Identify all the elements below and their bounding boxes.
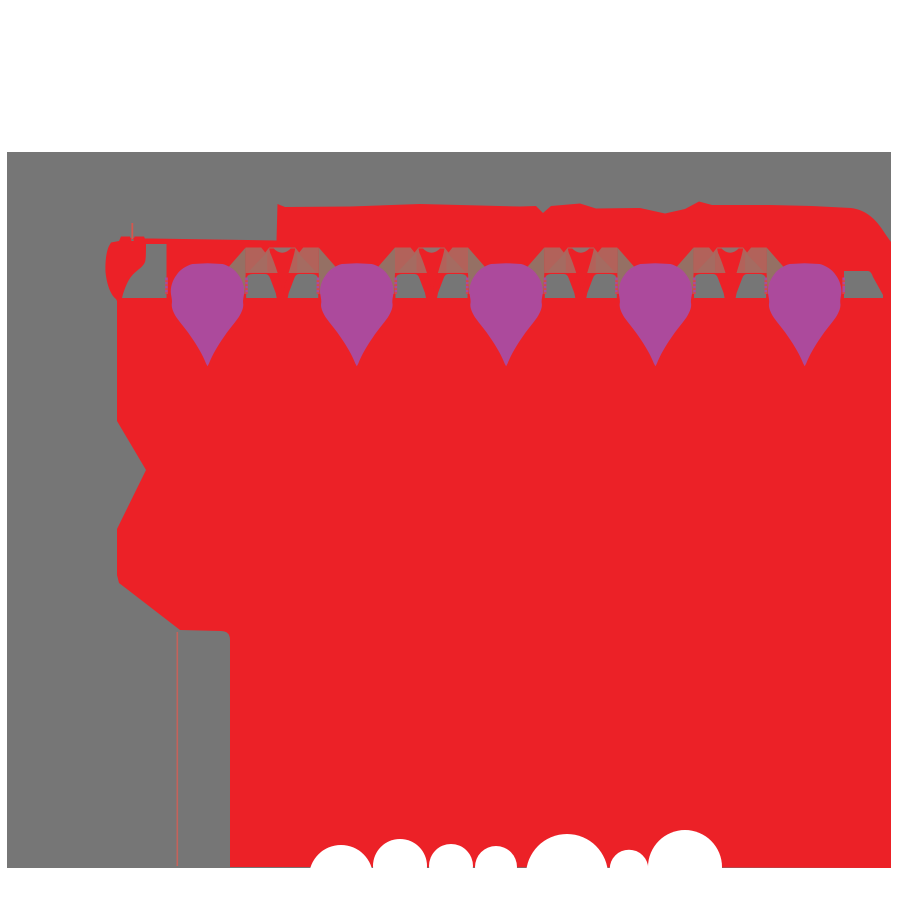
bulb 2	[320, 263, 393, 366]
dash column left of right trapezoid	[842, 278, 845, 295]
cloud bump 7	[648, 830, 722, 900]
bulb 5	[768, 263, 841, 366]
antenna tick	[131, 223, 133, 239]
socket 2	[378, 248, 486, 299]
cloud bump 4	[475, 846, 517, 888]
faint vertical line in bottom-left gray block	[177, 632, 179, 866]
socket 4	[676, 248, 784, 299]
dash column right of hill (purple with red dashes)	[165, 278, 168, 295]
socket 3	[527, 248, 635, 299]
socket 1	[228, 248, 336, 299]
cloud bump 5	[526, 834, 608, 900]
cloud bump 3	[429, 844, 473, 888]
bulb 3	[469, 263, 542, 366]
cloud bump 2	[373, 839, 427, 893]
gray field	[7, 152, 891, 868]
bulb 1	[171, 263, 244, 366]
cloud bump 6	[610, 850, 649, 889]
red main mass with top band	[105, 202, 891, 869]
gray trapezoid right of bulb 5	[844, 271, 883, 298]
bulb 4	[619, 263, 692, 366]
cloud bump 1	[309, 845, 373, 900]
gray zone between left column and bulb 1 (incl. hill)	[122, 244, 167, 299]
